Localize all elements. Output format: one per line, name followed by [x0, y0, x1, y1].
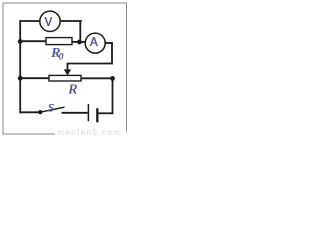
svg-text:S: S [48, 101, 54, 114]
node: left junction bottom [18, 76, 23, 81]
switch S lever [40, 107, 64, 112]
ammeter A1 [85, 33, 105, 53]
rheostat slider arrow [64, 69, 71, 75]
svg-text:R: R [68, 83, 78, 98]
watermark white patch [55, 129, 126, 137]
wire: top right segment [60, 20, 82, 22]
wire: A right [105, 42, 113, 44]
battery BT1 short plate [96, 108, 98, 122]
resistor R0 [46, 38, 72, 45]
svg-text:V: V [45, 14, 53, 29]
wire: row3 left [20, 77, 49, 79]
battery BT1 long plate [87, 104, 89, 121]
wire: slider horizontal [67, 63, 113, 65]
wire: slider stem [67, 64, 69, 71]
wire: row3 right [81, 77, 113, 79]
wire: right drop to slider line [111, 42, 113, 64]
svg-text:manfen5.com: manfen5.com [57, 127, 121, 137]
node: right junction [110, 76, 115, 81]
wire: row2 right [72, 41, 86, 43]
wire: right vertical to battery row [112, 78, 114, 114]
svg-text:A: A [90, 35, 98, 49]
switch S contact [38, 110, 42, 114]
node: R0-A junction [77, 40, 82, 45]
wire: top left segment [19, 20, 40, 22]
svg-text:0: 0 [59, 51, 64, 61]
wire: bottom right segment [98, 112, 113, 114]
wire: left vertical [19, 20, 21, 113]
wire: bottom middle segment [62, 112, 88, 114]
node: left junction top [18, 39, 23, 44]
rheostat R [49, 75, 81, 81]
voltmeter V1 [40, 11, 60, 31]
wire: bottom left segment [19, 111, 40, 113]
wire: V drop to node [79, 21, 81, 42]
border frame [3, 3, 127, 134]
wire: row2 left [20, 40, 46, 42]
